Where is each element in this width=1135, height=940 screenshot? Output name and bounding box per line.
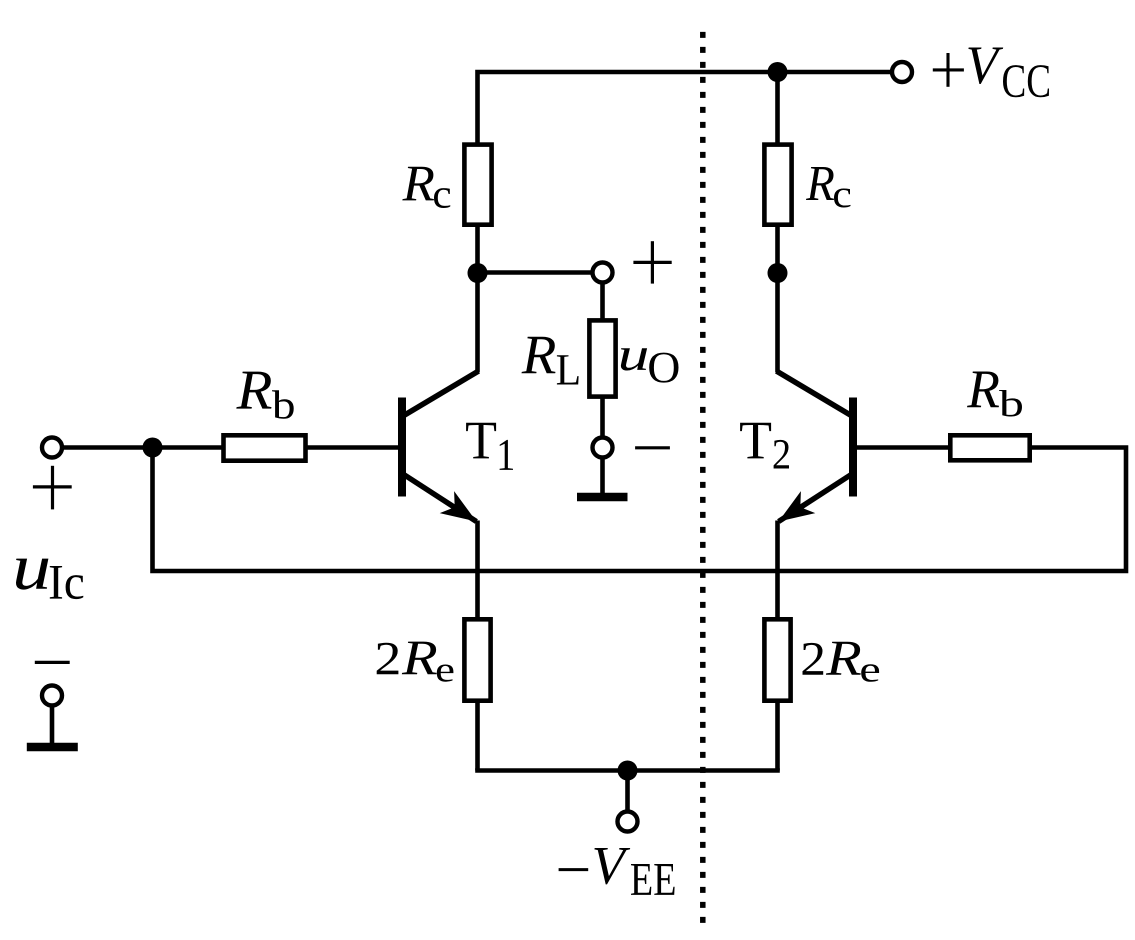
terminal output -	[593, 438, 613, 458]
resistor Rc right	[764, 145, 791, 225]
ground output bar	[577, 493, 628, 502]
label 2Re right	[803, 642, 880, 682]
label -VEE	[559, 848, 675, 895]
transistor T2	[776, 371, 853, 522]
wire 2Re right bottom lead	[775, 699, 780, 771]
wire T2 base	[857, 445, 952, 450]
label Rc left	[402, 167, 450, 208]
label minus output	[635, 446, 670, 449]
label Rc right	[806, 167, 851, 208]
resistor 2Re right	[764, 619, 790, 700]
node output junction	[468, 263, 488, 283]
wire output tap	[478, 270, 593, 275]
symmetry dotted line	[700, 32, 706, 923]
terminal input ground	[42, 686, 62, 706]
node input junction	[143, 438, 163, 458]
wire T2 collector	[775, 273, 780, 372]
wire T1 emitter	[475, 521, 480, 621]
node right collector junction	[768, 263, 788, 283]
label 2Re left	[377, 642, 454, 682]
label T1	[466, 423, 513, 470]
node bottom junction	[618, 761, 638, 781]
wire T2 emitter	[775, 521, 780, 621]
ground output stem	[600, 457, 605, 495]
resistor Rc left	[464, 145, 491, 225]
label plus input	[33, 466, 72, 510]
wire right Rc bottom lead	[775, 225, 780, 273]
wire right Rc top lead	[775, 72, 780, 145]
label plus output	[633, 241, 671, 283]
wire RL top lead	[600, 282, 605, 320]
resistor Rb left	[224, 435, 306, 460]
wire 2Re left bottom lead	[475, 699, 480, 771]
wire bottom rail	[475, 768, 780, 773]
wire Rb to T1 base	[306, 445, 400, 450]
resistor 2Re left	[464, 619, 490, 700]
label uO	[621, 348, 679, 382]
node junction top right	[768, 62, 788, 82]
wire common rail	[153, 448, 1127, 572]
label Rb right	[967, 372, 1022, 417]
terminal input +	[42, 438, 62, 458]
label Rb left	[236, 372, 293, 419]
wire input	[61, 445, 222, 450]
resistor Rb right	[950, 435, 1029, 460]
label +VCC	[933, 48, 1049, 98]
label T2	[740, 423, 789, 469]
wire VEE stem	[625, 771, 630, 813]
ground input stem	[50, 705, 55, 745]
resistor RL	[589, 320, 615, 396]
terminal output +	[593, 263, 613, 283]
label uIc	[16, 559, 83, 600]
ground input bar	[27, 743, 78, 752]
wire left Rc bottom lead	[475, 225, 480, 273]
transistor T1	[402, 371, 479, 522]
label minus input	[35, 661, 70, 664]
terminal -VEE	[618, 812, 638, 832]
terminal +VCC	[892, 62, 912, 82]
wire T1 collector	[475, 273, 480, 372]
wire RL bottom lead	[600, 397, 605, 439]
wire top rail	[478, 72, 894, 145]
label RL	[522, 337, 579, 385]
